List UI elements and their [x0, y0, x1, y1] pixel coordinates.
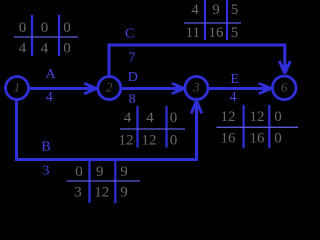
svg-text:11: 11: [186, 25, 200, 41]
node 2: [98, 77, 121, 100]
svg-text:1: 1: [14, 80, 21, 95]
arrowhead C into node 6: [279, 61, 290, 74]
svg-text:16: 16: [221, 131, 237, 147]
arrowhead B into node 3: [191, 101, 202, 114]
table node6-upper grid lines: [204, 0, 206, 40]
wire C path from node 2 up, right, down to node 6: [109, 45, 285, 77]
svg-text:12: 12: [142, 133, 157, 149]
svg-text:12: 12: [250, 109, 265, 125]
table node6-lower grid lines: [243, 105, 245, 148]
node 1: [6, 77, 29, 100]
svg-text:0: 0: [63, 41, 71, 57]
svg-text:0: 0: [274, 109, 282, 125]
node 3: [185, 77, 208, 100]
svg-text:0: 0: [274, 131, 282, 147]
svg-text:0: 0: [170, 110, 178, 126]
wire B path from node 1 down, right, up to node 3: [17, 99, 197, 160]
svg-text:12: 12: [221, 109, 236, 125]
svg-text:E: E: [230, 72, 239, 87]
svg-text:0: 0: [41, 20, 49, 36]
svg-text:5: 5: [231, 2, 239, 18]
table node1 grid lines: [31, 15, 33, 56]
svg-text:12: 12: [119, 133, 134, 149]
table node2-lower grid lines: [88, 161, 90, 203]
svg-text:4: 4: [191, 2, 199, 18]
wire E arrow from node 3 to node 6: [209, 87, 269, 90]
svg-text:0: 0: [170, 133, 178, 149]
wire A arrow from node 1 to node 2: [28, 87, 93, 90]
svg-text:4: 4: [124, 110, 132, 126]
svg-text:2: 2: [106, 80, 113, 95]
svg-text:0: 0: [19, 20, 27, 36]
svg-text:9: 9: [120, 164, 128, 180]
svg-text:3: 3: [192, 80, 200, 95]
svg-text:16: 16: [250, 131, 266, 147]
svg-text:6: 6: [281, 79, 288, 94]
svg-text:3: 3: [74, 185, 82, 201]
svg-text:4: 4: [41, 41, 49, 57]
svg-text:0: 0: [63, 20, 71, 36]
svg-text:B: B: [41, 139, 50, 154]
svg-text:0: 0: [75, 164, 83, 180]
svg-text:D: D: [128, 70, 138, 85]
node 6: [272, 76, 296, 100]
svg-text:5: 5: [231, 25, 239, 41]
svg-text:3: 3: [43, 163, 50, 178]
svg-text:C: C: [125, 27, 134, 42]
svg-text:8: 8: [129, 92, 136, 107]
svg-text:12: 12: [94, 185, 109, 201]
svg-text:7: 7: [129, 50, 136, 65]
svg-text:9: 9: [212, 2, 220, 18]
table node3 grid lines: [136, 106, 138, 148]
svg-text:4: 4: [46, 90, 53, 105]
svg-text:A: A: [45, 67, 56, 82]
svg-text:4: 4: [19, 41, 27, 57]
svg-text:16: 16: [209, 25, 225, 41]
svg-text:4: 4: [146, 110, 154, 126]
svg-text:9: 9: [120, 185, 128, 201]
svg-text:4: 4: [230, 90, 237, 105]
wire D arrow from node 2 to node 3: [121, 87, 182, 90]
svg-text:9: 9: [96, 164, 104, 180]
